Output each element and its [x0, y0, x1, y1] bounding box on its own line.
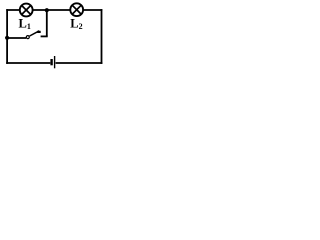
switch S1 pivot [26, 36, 29, 39]
lamp L1 symbol [20, 4, 33, 17]
battery: negative plate (short thick) [50, 59, 52, 65]
switch S1 blade (open) [30, 31, 40, 36]
wire: left wire [6, 9, 8, 64]
wire: top wire [6, 9, 102, 11]
wire: bottom wire left of battery [6, 62, 50, 64]
node: junction dot on top wire [45, 8, 49, 12]
switch S1 blade tip [37, 31, 41, 33]
svg-text:L2: L2 [70, 16, 82, 31]
wire: bottom wire right of battery [56, 62, 103, 64]
wire: switch left wire [7, 37, 26, 39]
battery: positive plate (long thin) [54, 56, 56, 68]
wire: right wire [101, 9, 103, 64]
wire: branch vertical from top junction [46, 10, 48, 36]
wire: branch stub to switch right terminal [41, 35, 48, 37]
lamp L2 symbol [70, 3, 83, 16]
node: junction dot on left wire [5, 36, 9, 40]
svg-text:L1: L1 [19, 16, 31, 31]
